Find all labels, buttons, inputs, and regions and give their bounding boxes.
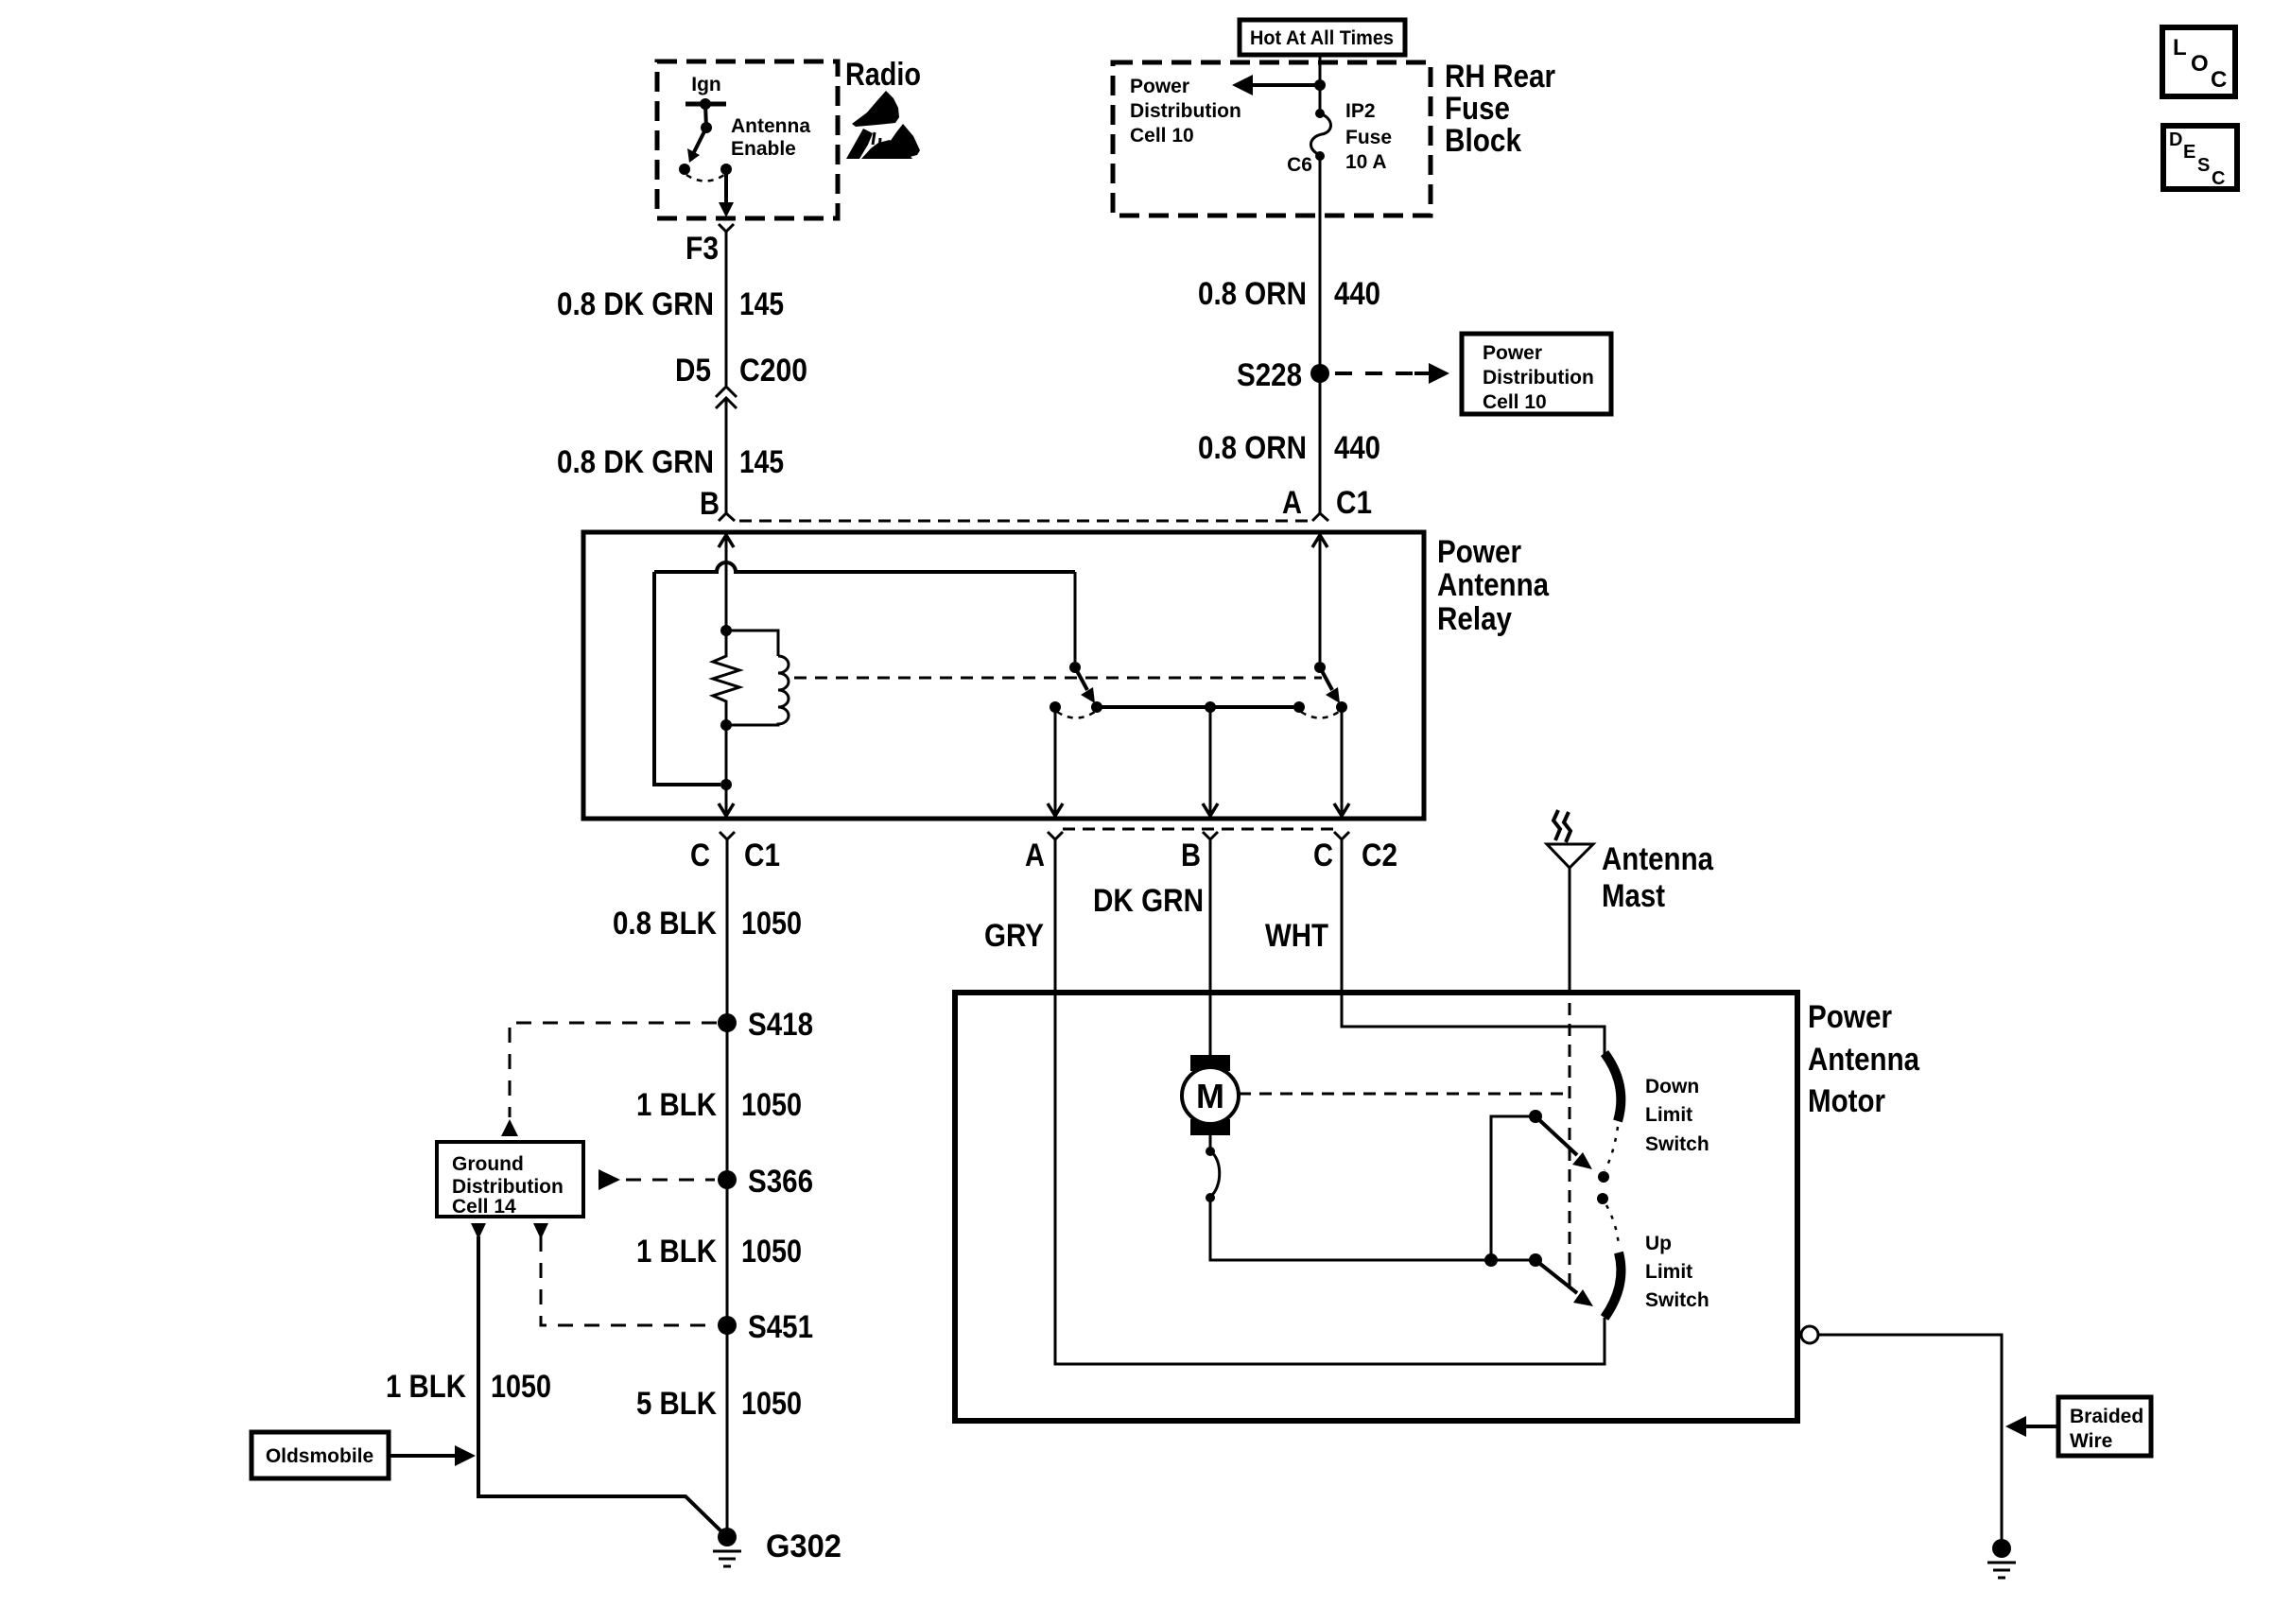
node contact A — [1050, 701, 1061, 713]
linkage dashed mast vertical — [1569, 1003, 1571, 1294]
svg-text:GRY: GRY — [984, 918, 1044, 954]
power tag Hot At All Times box — [1240, 20, 1405, 55]
fuse IP2 10A element — [1315, 109, 1325, 118]
splice S366 — [718, 1170, 737, 1189]
svg-text:440: 440 — [1334, 276, 1380, 312]
svg-text:Mast: Mast — [1602, 878, 1665, 914]
node coil bottom — [720, 719, 732, 731]
svg-text:Wire: Wire — [2070, 1430, 2112, 1452]
motor box — [955, 993, 1797, 1421]
svg-text:C200: C200 — [739, 353, 807, 389]
node switch1 contact — [1091, 701, 1102, 713]
svg-text:1 BLK: 1 BLK — [636, 1234, 717, 1270]
up limit switch arc — [1605, 1253, 1621, 1318]
svg-text:G302: G302 — [766, 1529, 842, 1564]
wire coil top horizontal with hop — [654, 562, 1075, 572]
node B junction — [1205, 701, 1216, 713]
wire ign stem — [705, 104, 706, 128]
svg-text:B: B — [700, 486, 720, 522]
svg-text:1050: 1050 — [741, 1087, 802, 1123]
svg-text:C2: C2 — [1362, 838, 1397, 873]
svg-text:C: C — [2211, 67, 2227, 93]
wire coil to C output — [725, 725, 728, 816]
svg-text:C1: C1 — [744, 838, 780, 873]
pin C / C1 connector — [720, 832, 735, 855]
svg-text:S: S — [2197, 155, 2210, 176]
wire 0.8 DK GRN 145 lower — [725, 398, 728, 513]
antenna mast symbol — [1569, 868, 1571, 993]
fuse block dashed box — [1113, 62, 1431, 216]
wire radio output — [724, 169, 728, 207]
svg-text:0.8 DK GRN: 0.8 DK GRN — [557, 444, 714, 480]
svg-text:Switch: Switch — [1645, 1133, 1709, 1155]
wire WHT C input — [1342, 855, 1605, 1055]
svg-text:0.8 ORN: 0.8 ORN — [1198, 430, 1307, 466]
node hot junction — [1314, 79, 1326, 91]
wire breaker to switch common — [1210, 1198, 1530, 1260]
pin A connector — [1312, 513, 1328, 521]
linkage dashed relay — [794, 677, 1322, 680]
dashed arrow to power distribution cell 10 — [1335, 371, 1418, 375]
svg-text:1050: 1050 — [741, 1386, 802, 1422]
svg-text:Fuse: Fuse — [1445, 91, 1510, 127]
circuit breaker element — [1206, 1147, 1215, 1156]
svg-text:Fuse: Fuse — [1345, 127, 1392, 148]
svg-text:C: C — [2212, 168, 2225, 189]
node up limit contact — [1597, 1193, 1608, 1204]
wire coil bypass left vertical — [654, 572, 720, 785]
svg-text:E: E — [2183, 142, 2195, 163]
switch1 arm — [1075, 667, 1087, 690]
svg-text:F3: F3 — [685, 231, 719, 267]
desc box — [2163, 126, 2237, 189]
node coil top — [720, 625, 732, 636]
node switch2 pivot — [1314, 662, 1326, 673]
svg-text:S418: S418 — [748, 1007, 813, 1043]
svg-text:Enable: Enable — [731, 138, 796, 160]
svg-text:5 BLK: 5 BLK — [636, 1386, 717, 1422]
inductor relay coil — [726, 631, 778, 656]
power distribution cell 10 box (right) — [1462, 334, 1611, 414]
svg-text:Power: Power — [1130, 76, 1189, 97]
down limit dotted throw — [1605, 1127, 1618, 1170]
svg-text:A: A — [1025, 838, 1045, 873]
svg-text:0.8 ORN: 0.8 ORN — [1198, 276, 1307, 312]
svg-text:Limit: Limit — [1645, 1104, 1692, 1126]
svg-text:Down: Down — [1645, 1076, 1699, 1097]
arrow braided wire — [2023, 1425, 2058, 1428]
wire 0.8 BLK 1050 — [726, 855, 729, 1537]
wire A C1 input to switch 2 — [1319, 532, 1322, 662]
svg-text:Power: Power — [1437, 534, 1521, 570]
pin A connector — [1048, 832, 1063, 855]
svg-text:S451: S451 — [748, 1309, 813, 1345]
oldsmobile box — [252, 1432, 389, 1478]
motor M1 — [1190, 1055, 1230, 1071]
wire junction to down pivot — [1491, 1116, 1530, 1260]
svg-text:Ground: Ground — [452, 1153, 524, 1175]
svg-text:Antenna: Antenna — [1808, 1042, 1920, 1078]
arrow oldsmobile to wire — [389, 1454, 456, 1458]
node switch2 contact — [1336, 701, 1347, 713]
svg-text:C6: C6 — [1287, 154, 1312, 176]
svg-text:C1: C1 — [1336, 485, 1372, 521]
svg-text:C: C — [1313, 838, 1333, 873]
wire common bar — [1097, 705, 1299, 709]
ground distribution cell 14 box — [437, 1142, 583, 1217]
svg-text:Block: Block — [1445, 123, 1521, 159]
loc box — [2162, 27, 2235, 96]
svg-text:Braided: Braided — [2070, 1406, 2143, 1427]
svg-text:1 BLK: 1 BLK — [386, 1369, 466, 1405]
node contact right — [720, 164, 732, 175]
node up limit pivot — [1529, 1253, 1542, 1267]
svg-text:440: 440 — [1334, 430, 1380, 466]
wire 0.8 DK GRN 145 upper — [725, 239, 728, 386]
svg-text:10 A: 10 A — [1345, 151, 1387, 173]
svg-text:1050: 1050 — [741, 906, 802, 942]
svg-text:145: 145 — [739, 286, 784, 322]
svg-text:C: C — [690, 838, 710, 873]
esd symbol — [846, 91, 920, 159]
radio component dashed box — [657, 61, 838, 218]
svg-text:Cell 14: Cell 14 — [452, 1196, 516, 1218]
dashed wire S418 to ground distribution — [510, 1023, 717, 1117]
svg-text:S228: S228 — [1237, 357, 1302, 393]
switch1 throw dashed arc — [1057, 712, 1095, 718]
splice S418 — [718, 1013, 737, 1032]
down limit switch arm — [1536, 1116, 1577, 1155]
wire feed to switch 1 — [1074, 572, 1077, 662]
svg-text:0.8 DK GRN: 0.8 DK GRN — [557, 286, 714, 322]
svg-text:1050: 1050 — [741, 1234, 802, 1270]
node down limit pivot — [1529, 1110, 1542, 1123]
svg-text:A: A — [1282, 485, 1302, 521]
wire hot feed — [1319, 55, 1322, 85]
node switch1 pivot — [1069, 662, 1081, 673]
svg-text:D5: D5 — [675, 353, 711, 389]
wire motor to breaker — [1209, 1134, 1212, 1149]
wire C output — [1341, 707, 1344, 816]
ign feed bar — [685, 102, 726, 107]
switch arm antenna-enable — [694, 128, 706, 152]
connector C1 dashed line — [739, 520, 1309, 523]
svg-text:Antenna: Antenna — [731, 115, 810, 137]
dashed wire ground distribution to S451 — [533, 1223, 548, 1239]
svg-text:WHT: WHT — [1265, 918, 1328, 954]
svg-text:Ign: Ign — [691, 74, 721, 95]
svg-text:1 BLK: 1 BLK — [636, 1087, 717, 1123]
pin B connector — [1203, 832, 1218, 855]
wire braided ground — [1818, 1335, 2002, 1541]
svg-text:1050: 1050 — [491, 1369, 551, 1405]
svg-text:Antenna: Antenna — [1437, 567, 1550, 603]
svg-text:Oldsmobile: Oldsmobile — [266, 1445, 373, 1467]
down limit switch arc — [1605, 1053, 1621, 1121]
splice S228 — [1310, 364, 1329, 383]
svg-text:S366: S366 — [748, 1164, 813, 1200]
wire DK GRN B input — [1209, 855, 1212, 1055]
connector C200 chevrons — [716, 387, 737, 408]
pin C / C2 connector — [1334, 832, 1349, 855]
svg-text:L: L — [2173, 35, 2187, 60]
node contact left — [679, 164, 690, 175]
resistor relay coil — [713, 625, 739, 725]
svg-text:Distribution: Distribution — [452, 1176, 564, 1198]
svg-text:M: M — [1196, 1077, 1224, 1115]
pin F3 connector — [719, 224, 734, 239]
svg-text:145: 145 — [739, 444, 784, 480]
node ign bar junction — [700, 98, 711, 110]
svg-text:DK GRN: DK GRN — [1093, 883, 1204, 919]
svg-text:Switch: Switch — [1645, 1289, 1709, 1311]
switch2 throw dashed arc — [1301, 712, 1339, 718]
switch2 arm — [1320, 667, 1332, 690]
connector C2 dashed line — [1063, 828, 1334, 831]
svg-text:Up: Up — [1645, 1233, 1672, 1254]
wire B output — [1209, 707, 1212, 816]
relay box — [583, 532, 1424, 819]
svg-text:Limit: Limit — [1645, 1261, 1692, 1283]
svg-text:RH Rear: RH Rear — [1445, 59, 1555, 95]
wire 0.8 ORN 440 upper — [1319, 156, 1322, 513]
up limit switch arm — [1536, 1260, 1577, 1293]
svg-text:Relay: Relay — [1437, 601, 1512, 637]
arrow ground distribution to S366 — [599, 1169, 620, 1190]
terminal ring on motor case — [1801, 1326, 1818, 1343]
splice S451 — [718, 1316, 737, 1335]
svg-text:Antenna: Antenna — [1602, 841, 1714, 877]
up limit dotted throw — [1606, 1205, 1619, 1246]
node switch pivot — [701, 122, 712, 133]
braided wire box — [2058, 1397, 2151, 1456]
wire arrow to power distribution — [1248, 83, 1320, 87]
svg-text:B: B — [1181, 838, 1201, 873]
svg-text:IP2: IP2 — [1345, 100, 1376, 122]
wire relay coil feed (B input) — [725, 532, 728, 625]
svg-text:Cell 10: Cell 10 — [1483, 391, 1547, 413]
svg-text:Power: Power — [1808, 999, 1892, 1035]
svg-text:0.8 BLK: 0.8 BLK — [613, 906, 717, 942]
svg-text:O: O — [2191, 51, 2209, 77]
node limit switch junction — [1484, 1253, 1498, 1267]
node bypass junction — [720, 779, 732, 790]
wire to fuse — [1319, 85, 1322, 113]
ground (braided) — [1992, 1539, 2011, 1558]
ground G302 — [718, 1528, 737, 1546]
svg-text:Radio: Radio — [845, 57, 921, 93]
wire ground distribution left drop — [471, 1223, 486, 1239]
svg-text:Motor: Motor — [1808, 1083, 1885, 1119]
svg-text:Distribution: Distribution — [1483, 367, 1594, 389]
svg-text:Hot At All Times: Hot At All Times — [1250, 27, 1394, 49]
svg-text:D: D — [2169, 130, 2182, 150]
svg-text:Cell 10: Cell 10 — [1130, 125, 1194, 147]
svg-text:Power: Power — [1483, 342, 1542, 364]
wire A output — [1054, 707, 1057, 816]
pin B connector — [719, 513, 735, 521]
switch throw dashed arc — [686, 175, 724, 181]
node down limit contact — [1598, 1171, 1609, 1183]
linkage dashed motor to mast — [1239, 1093, 1570, 1096]
svg-text:Distribution: Distribution — [1130, 100, 1241, 122]
wire GRY A input — [1055, 855, 1605, 1364]
node common end — [1293, 701, 1305, 713]
